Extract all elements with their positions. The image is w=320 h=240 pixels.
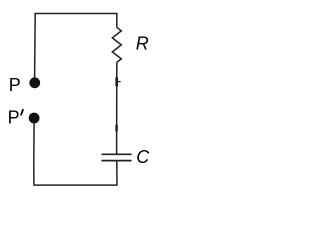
capacitor C top plate bbox=[102, 153, 132, 155]
wire tick (small horizontal stub at junction) bbox=[117, 81, 120, 83]
terminal P' (dot) bbox=[29, 113, 40, 124]
wire right vertical bottom (capacitor to corner) bbox=[116, 161, 118, 186]
svg-text:R: R bbox=[136, 33, 149, 53]
svg-text:P: P bbox=[9, 75, 21, 95]
wire left vertical lower (terminal P' to corner) bbox=[33, 121, 35, 186]
resistor R (zigzag) bbox=[112, 27, 121, 62]
wire thick mark upper (artifact segment on wire) bbox=[115, 77, 118, 86]
wire top horizontal bbox=[35, 13, 117, 15]
wire right vertical middle (resistor to capacitor) bbox=[116, 62, 118, 153]
svg-text:P: P bbox=[8, 108, 20, 128]
svg-text:C: C bbox=[136, 147, 150, 167]
wire left vertical upper (corner to terminal P) bbox=[34, 13, 37, 79]
capacitor C bottom plate bbox=[102, 160, 132, 162]
label P' prime mark bbox=[20, 109, 24, 116]
wire right vertical top stub (corner to resistor) bbox=[116, 13, 118, 28]
terminal P (dot) bbox=[29, 77, 40, 88]
wire thick mark lower (artifact segment on wire) bbox=[115, 125, 117, 131]
wire bottom horizontal bbox=[34, 184, 117, 186]
